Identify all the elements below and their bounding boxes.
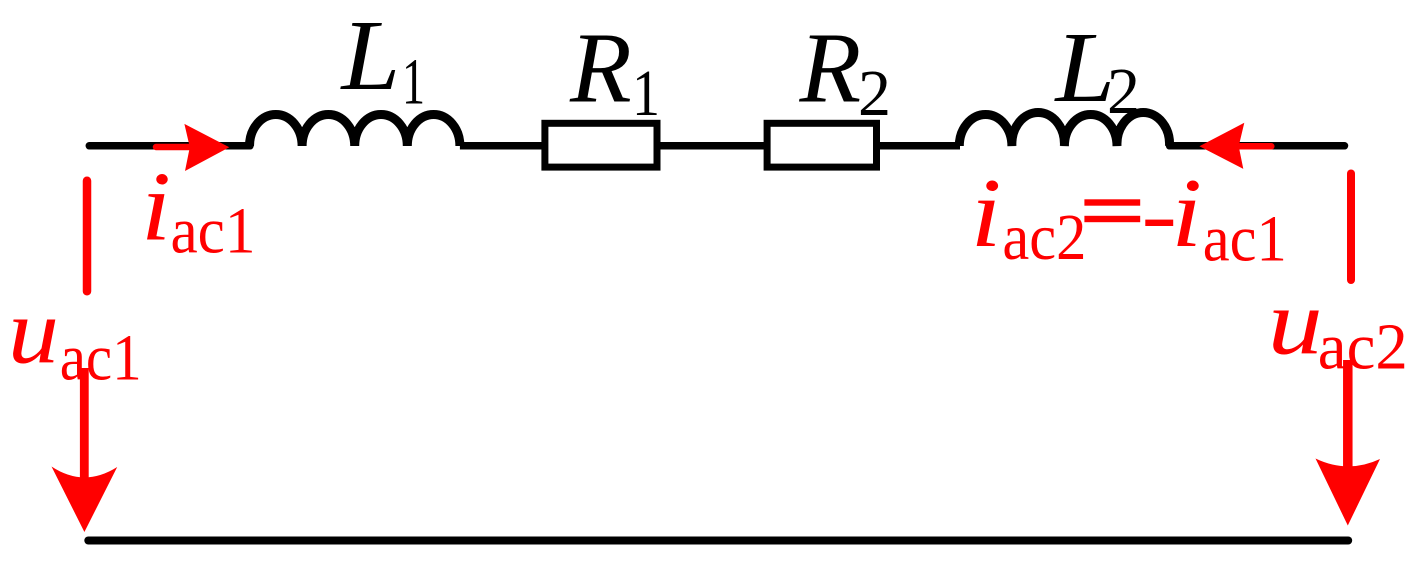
equals sign	[1084, 199, 1140, 222]
svg-text:2: 2	[1107, 55, 1140, 128]
voltage marker u_ac1 upper stem	[83, 181, 92, 291]
minus sign	[1145, 220, 1173, 226]
svg-text:ac2: ac2	[1318, 311, 1408, 384]
svg-text:1: 1	[632, 57, 660, 130]
current arrow i_ac2	[1199, 123, 1271, 169]
svg-text:R: R	[799, 11, 862, 123]
wire R2 to L2	[876, 142, 960, 150]
svg-text:2: 2	[858, 57, 891, 130]
svg-text:ac1: ac1	[60, 321, 142, 394]
wire top-right segment	[1170, 142, 1345, 150]
resistor R2	[767, 123, 876, 167]
svg-text:i: i	[141, 153, 171, 262]
voltage arrow u_ac1	[52, 368, 118, 532]
wire R1 to R2	[656, 142, 768, 150]
svg-text:L: L	[339, 0, 400, 111]
svg-text:1: 1	[402, 46, 425, 119]
svg-text:ac1: ac1	[1203, 202, 1287, 275]
voltage arrow u_ac2	[1316, 360, 1381, 526]
svg-text:i: i	[971, 159, 1002, 268]
current arrow i_ac1	[156, 124, 229, 171]
svg-text:i: i	[1171, 159, 1202, 268]
svg-text:u: u	[1268, 272, 1323, 375]
svg-text:ac1: ac1	[171, 194, 256, 267]
svg-text:L: L	[1053, 11, 1115, 123]
inductor L1	[250, 114, 460, 146]
voltage marker u_ac2 upper stem	[1347, 174, 1355, 281]
wire L1 to R1	[460, 142, 546, 150]
svg-text:R: R	[569, 11, 632, 123]
svg-text:ac2: ac2	[1002, 201, 1086, 274]
svg-text:u: u	[8, 281, 59, 384]
wire bottom return	[88, 537, 1348, 545]
wire top-left segment	[89, 142, 250, 150]
resistor R1	[545, 123, 657, 167]
inductor L2	[959, 113, 1169, 146]
